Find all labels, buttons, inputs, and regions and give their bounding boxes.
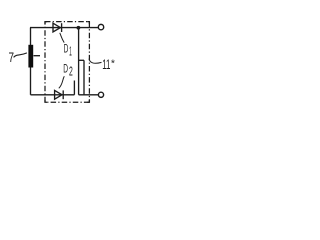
terminal circle top [98, 24, 103, 29]
svg-text:2: 2 [69, 63, 73, 78]
leader 11* [89, 59, 102, 64]
svg-text:7: 7 [9, 50, 15, 66]
svg-text:D: D [63, 62, 68, 76]
leader D1 [60, 33, 64, 43]
leader D2 [59, 76, 65, 88]
connector bar stub [34, 55, 41, 57]
diode D2 [55, 90, 62, 99]
wire: bottom lead from bus to D2 [31, 94, 75, 96]
wire: inner branch vertical [83, 60, 85, 95]
wire: top lead from left bus to terminal circle [30, 27, 98, 29]
wire: inner branch horizontal [79, 59, 84, 61]
diode D1 [53, 23, 60, 32]
node A dot [77, 26, 81, 30]
enclosure corner ticks [45, 22, 89, 103]
svg-text:D: D [64, 43, 69, 56]
wire: bottom lead from node to terminal circle [79, 94, 99, 96]
svg-text:1: 1 [69, 45, 72, 59]
wire: left bus vertical [30, 28, 32, 95]
component enclosure (dash-dot box, item 11*) [45, 22, 89, 103]
leader 7 [14, 53, 27, 58]
svg-text:*: * [111, 57, 115, 69]
svg-text:11: 11 [102, 57, 110, 72]
terminal circle bottom [98, 92, 103, 97]
wire: stub vertical [73, 81, 75, 95]
connector bar terminal 7 [28, 45, 33, 68]
node A junction vertical [78, 28, 80, 95]
